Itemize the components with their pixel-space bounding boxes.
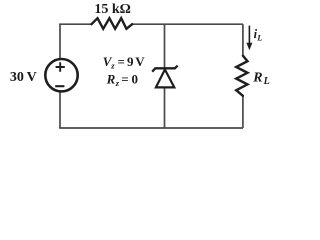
svg-text:RL: RL	[252, 71, 269, 88]
svg-text:Rz=0: Rz=0	[106, 71, 138, 88]
svg-text:iL: iL	[254, 27, 263, 43]
svg-text:15 kΩ: 15 kΩ	[94, 2, 131, 17]
svg-text:Vz=9V: Vz=9V	[103, 54, 145, 71]
svg-text:30 V: 30 V	[10, 70, 37, 85]
